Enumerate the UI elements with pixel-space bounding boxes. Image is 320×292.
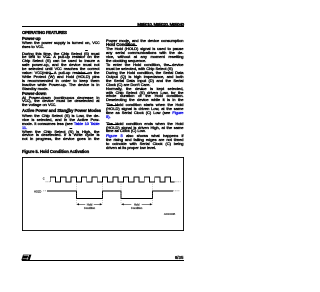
- svg-text:HOLD: HOLD: [34, 190, 41, 194]
- svg-text:AI02029B: AI02029B: [164, 212, 176, 216]
- svg-text:C: C: [43, 177, 45, 181]
- svg-text:Condition: Condition: [131, 206, 143, 210]
- svg-text:Condition: Condition: [84, 206, 96, 210]
